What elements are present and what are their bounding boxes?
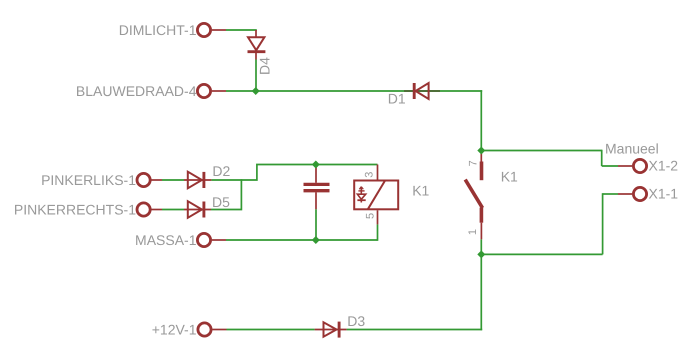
wire vertical junction to +12V net	[480, 254, 482, 330]
svg-text:D2: D2	[212, 163, 230, 179]
svg-text:X1-2: X1-2	[649, 158, 679, 174]
pin number 7	[468, 160, 480, 166]
label PINKERRECHTS-1	[14, 202, 136, 218]
svg-text:D1: D1	[388, 91, 406, 107]
junction capacitor bottom / MASSA	[312, 236, 320, 244]
label DIMLICHT-1	[119, 22, 197, 38]
junction switch top	[477, 147, 485, 155]
junction switch bottom	[477, 250, 485, 258]
label +12V-1	[152, 322, 197, 338]
svg-text:1: 1	[467, 229, 479, 235]
pin number 1	[467, 229, 479, 235]
svg-text:MASSA-1: MASSA-1	[135, 232, 197, 248]
pin DIMLICHT-1	[197, 23, 226, 36]
diode D5	[184, 201, 211, 218]
pin X1-2	[618, 159, 647, 172]
capacitor C1	[304, 166, 330, 209]
svg-text:+12V-1: +12V-1	[152, 322, 197, 338]
label D2	[212, 163, 230, 179]
label PINKERLIKS-1	[41, 172, 136, 188]
label K1 coil	[412, 182, 429, 198]
pin number 5	[365, 213, 377, 219]
label D1	[388, 91, 406, 107]
wire D2 to relay pin3 net	[211, 165, 377, 181]
diode D1	[404, 83, 440, 99]
pin BLAUWEDRAAD-4	[197, 84, 226, 97]
wire BLAUWEDRAAD net horizontal	[226, 90, 482, 92]
svg-text:DIMLICHT-1: DIMLICHT-1	[119, 22, 197, 38]
label X1-1	[649, 186, 679, 202]
wire Manueel horizontal	[481, 150, 601, 152]
svg-text:D3: D3	[347, 313, 365, 329]
label D3	[347, 313, 365, 329]
wire capacitor bottom to MASSA net	[315, 209, 317, 240]
switch contact K1	[465, 153, 482, 240]
svg-text:BLAUWEDRAAD-4: BLAUWEDRAAD-4	[76, 83, 197, 99]
wire X1-1 vertical drop	[602, 193, 604, 254]
wire MASSA net horizontal	[226, 239, 378, 241]
diode D3	[315, 322, 347, 338]
svg-text:PINKERRECHTS-1: PINKERRECHTS-1	[14, 202, 136, 218]
wire to X1-2 pin	[602, 165, 618, 167]
diode D2	[184, 172, 211, 189]
svg-text:Manueel: Manueel	[605, 141, 659, 157]
pin PINKERRECHTS-1	[137, 203, 162, 216]
wire from X1-1 pin	[603, 193, 618, 195]
svg-text:D4: D4	[256, 57, 272, 75]
svg-text:X1-1: X1-1	[649, 186, 679, 202]
svg-text:K1: K1	[501, 169, 518, 185]
wire relay pin5 to MASSA net	[377, 224, 379, 240]
diode D4	[248, 30, 266, 60]
svg-text:D5: D5	[212, 194, 230, 210]
wire PINKERRECHTS to D5	[162, 209, 184, 211]
wire switch pin1 to junction	[480, 239, 482, 254]
junction capacitor top	[312, 161, 320, 169]
label X1-2	[649, 158, 679, 174]
label Manueel	[605, 141, 659, 157]
wire +12V net left of D3	[227, 329, 315, 331]
wire +12V net right of D3	[347, 329, 483, 331]
pin number 3	[364, 172, 376, 178]
wire X1-1 bottom horizontal	[481, 253, 602, 255]
label D4	[256, 57, 272, 75]
label D5	[212, 194, 230, 210]
svg-text:PINKERLIKS-1: PINKERLIKS-1	[41, 172, 136, 188]
wire vertical to switch top	[480, 90, 482, 150]
svg-text:5: 5	[365, 213, 377, 219]
wire Manueel vertical drop	[601, 150, 603, 166]
pin X1-1	[618, 187, 647, 200]
wire DIMLICHT net horizontal	[226, 29, 257, 31]
relay coil K1	[354, 165, 398, 225]
junction BLAUWEDRAAD/D4	[252, 87, 260, 95]
label MASSA-1	[135, 232, 197, 248]
pin MASSA-1	[197, 233, 226, 246]
pin +12V-1	[198, 323, 227, 336]
wire D4 cathode to BLAUWEDRAAD net	[255, 60, 257, 92]
pin PINKERLIKS-1	[137, 173, 162, 186]
label K1 switch	[501, 169, 518, 185]
wire D5 to D2 net	[211, 179, 241, 209]
svg-text:3: 3	[364, 172, 376, 178]
svg-text:7: 7	[468, 160, 480, 166]
label BLAUWEDRAAD-4	[76, 83, 197, 99]
svg-text:K1: K1	[412, 182, 429, 198]
wire PINKERLIKS to D2	[162, 179, 184, 181]
